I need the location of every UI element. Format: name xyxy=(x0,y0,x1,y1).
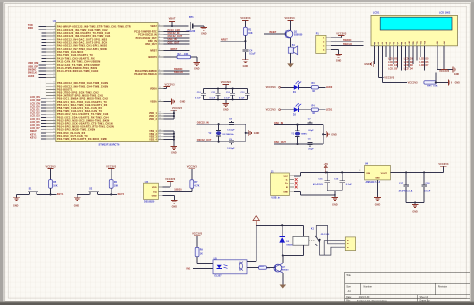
wire (opto emitter) xyxy=(247,267,259,269)
wire / net label BEEP xyxy=(264,31,286,34)
svg-text:AMS1117-3.3: AMS1117-3.3 xyxy=(366,181,381,184)
svg-text:SWCLK: SWCLK xyxy=(343,43,352,46)
wire xyxy=(331,50,339,55)
svg-text:15: 15 xyxy=(53,47,55,49)
wire / net label LCD_D7 xyxy=(30,127,46,130)
svg-text:37: 37 xyxy=(53,119,55,121)
ground GND (VSSA) xyxy=(172,98,186,104)
svg-text:PA14/JTCK-SWCLK: PA14/JTCK-SWCLK xyxy=(134,73,157,76)
svg-text:VDD_1: VDD_1 xyxy=(149,113,157,115)
power port VCC3V3 (VDDA) xyxy=(163,84,175,87)
svg-text:LCD1: LCD1 xyxy=(373,11,380,14)
svg-text:16: 16 xyxy=(53,51,55,53)
svg-text:27: 27 xyxy=(53,88,55,90)
svg-text:12.5pF: 12.5pF xyxy=(227,148,235,150)
wire / net label LCD_RW xyxy=(30,99,46,102)
svg-text:GND: GND xyxy=(455,82,461,84)
power port VCC3V3 (decoupling) xyxy=(221,81,232,88)
net label LCD_D6 xyxy=(419,62,429,64)
connector J2 (relay output) xyxy=(345,237,355,251)
svg-text:18: 18 xyxy=(159,135,161,137)
wire / net label OSC32_OUT xyxy=(163,35,189,38)
svg-text:OSC32_OUT: OSC32_OUT xyxy=(197,139,212,142)
wire xyxy=(327,191,342,198)
svg-text:VSSA: VSSA xyxy=(150,101,157,104)
wire VCC3V3 rail xyxy=(390,171,443,173)
wire LCD_D2 (LCD pin 9) xyxy=(404,46,406,71)
svg-text:GND: GND xyxy=(375,177,380,179)
svg-text:28: 28 xyxy=(53,91,55,93)
svg-text:VCC3V3: VCC3V3 xyxy=(284,17,295,20)
wire / net label LCD_D5 xyxy=(30,121,46,124)
svg-text:C17: C17 xyxy=(399,183,404,185)
svg-text:6: 6 xyxy=(159,43,160,45)
svg-text:GND: GND xyxy=(375,204,381,207)
svg-text:VCC3V3: VCC3V3 xyxy=(439,70,450,73)
svg-text:D-: D- xyxy=(286,180,289,182)
svg-text:29: 29 xyxy=(53,94,55,96)
power port VCC3V3 (contrast) xyxy=(408,81,419,84)
svg-text:VSS_1: VSS_1 xyxy=(149,131,157,133)
wire / net label LCD_D1 xyxy=(30,109,46,112)
svg-text:20: 20 xyxy=(53,63,55,65)
svg-text:30: 30 xyxy=(53,97,55,99)
wire / net label OSC_OUT xyxy=(274,141,323,145)
svg-text:Revision: Revision xyxy=(438,286,448,289)
wire xyxy=(163,181,171,187)
wire LCD_D6 (LCD pin 13) xyxy=(420,46,422,57)
battery BT1 CR1220 xyxy=(187,16,204,33)
svg-text:VCC: VCC xyxy=(283,176,288,178)
svg-text:1K: 1K xyxy=(200,253,203,255)
svg-text:15: 15 xyxy=(159,118,161,120)
wire xyxy=(266,267,275,269)
wire xyxy=(322,125,326,144)
wire / net label LCD_D3 xyxy=(30,115,46,118)
ground GND (decoupling) xyxy=(223,99,230,111)
wire (USB VCC) xyxy=(294,172,301,175)
LCD module LCD1 LCD1602 xyxy=(371,11,458,45)
net label LED0 xyxy=(326,86,333,89)
capacitor C10 0.1uF xyxy=(195,89,206,100)
svg-text:10K: 10K xyxy=(248,33,253,35)
wire xyxy=(318,86,325,88)
power port +5V (relay) xyxy=(253,216,259,226)
svg-text:OSC_IN: OSC_IN xyxy=(274,122,283,125)
wire / net label OSC_OUT xyxy=(163,41,189,44)
svg-text:PC15-OSC32_OUT: PC15-OSC32_OUT xyxy=(136,38,158,40)
svg-text:32.768KHz: 32.768KHz xyxy=(222,134,234,136)
svg-text:41: 41 xyxy=(53,131,55,133)
svg-text:VDD_2: VDD_2 xyxy=(149,116,157,118)
wire xyxy=(191,57,197,63)
svg-text:LCD_D7: LCD_D7 xyxy=(419,65,429,67)
svg-text:PA14-JTCK-SWCLK-TIM8_CH1N: PA14-JTCK-SWCLK-TIM8_CH1N xyxy=(57,70,99,73)
svg-text:14: 14 xyxy=(159,115,161,117)
svg-text:KEY2: KEY2 xyxy=(118,193,125,196)
wire / net label PC13_LED xyxy=(163,29,189,32)
svg-text:13: 13 xyxy=(159,112,161,114)
svg-text:STM32F103RCT6: STM32F103RCT6 xyxy=(99,143,120,146)
svg-text:GND: GND xyxy=(223,109,229,112)
wire xyxy=(435,72,449,83)
svg-text:0.1uF: 0.1uF xyxy=(210,97,216,99)
svg-text:18B20: 18B20 xyxy=(174,189,182,192)
wire xyxy=(76,194,78,197)
power port VCC3V3 (LED row 1) xyxy=(266,86,281,89)
wire / net label RXD xyxy=(28,27,46,30)
wire / net label SWDIO (U1 right) xyxy=(163,68,189,71)
power port VBAT xyxy=(169,17,176,26)
crystal Y2 32.768KHz xyxy=(208,124,234,142)
svg-text:LCD_D3: LCD_D3 xyxy=(404,65,414,67)
wire / net label LCD_D6 xyxy=(30,124,46,127)
wire / net label KEY2 xyxy=(30,136,46,139)
wire LCD_D3 (LCD pin 10) xyxy=(408,46,410,68)
diode D5 1N4007 (flyback) xyxy=(279,225,295,255)
power port VCC3V3 (LCD VDD) xyxy=(384,77,395,80)
resistor R10 1K xyxy=(259,266,271,270)
wire LCD pin1 xyxy=(374,46,376,64)
capacitor C4 0.1uF (NRST) xyxy=(242,49,256,60)
wire xyxy=(163,196,175,201)
svg-text:10K: 10K xyxy=(433,86,438,88)
svg-text:26: 26 xyxy=(53,85,55,87)
svg-text:9: 9 xyxy=(159,69,160,71)
wire LCD pin3 xyxy=(382,46,407,83)
svg-text:VIN: VIN xyxy=(366,173,370,175)
ground GND (key S2) xyxy=(74,198,81,208)
svg-text:36: 36 xyxy=(53,116,55,118)
wire LCD_RS (LCD pin 4) xyxy=(385,46,387,57)
svg-text:43: 43 xyxy=(53,138,55,140)
svg-text:VCC3V3: VCC3V3 xyxy=(106,165,117,168)
svg-text:RXD: RXD xyxy=(28,27,33,30)
power port VCC3V3 (DS18B20) xyxy=(165,178,176,181)
ground GND (P1) xyxy=(335,54,342,62)
svg-text:14: 14 xyxy=(53,44,55,46)
svg-text:NRST: NRST xyxy=(150,51,157,53)
net label LCD_RS xyxy=(388,58,398,60)
LED D2 xyxy=(293,103,301,116)
wires U1 left unlabeled stubs xyxy=(42,33,46,65)
svg-text:GND: GND xyxy=(13,205,19,208)
svg-text:OSC_OUT: OSC_OUT xyxy=(145,44,157,46)
resistor R3 1K xyxy=(311,83,318,93)
wire LCD_D7 (LCD pin 14) xyxy=(424,46,426,71)
svg-text:8: 8 xyxy=(54,25,55,27)
svg-text:GND: GND xyxy=(74,205,80,208)
svg-text:OSC_OUT: OSC_OUT xyxy=(274,141,286,144)
ground GND (BOOT0) xyxy=(194,63,201,71)
svg-text:KEY1: KEY1 xyxy=(57,193,64,196)
capacitor C15 47uF/16V xyxy=(313,172,330,190)
transistor Q1 SS8050 xyxy=(285,30,303,38)
capacitor C7 20pF xyxy=(308,119,315,132)
svg-text:BOOT0: BOOT0 xyxy=(149,57,158,59)
wire xyxy=(17,188,57,195)
svg-text:LCD_D6: LCD_D6 xyxy=(419,62,429,64)
wire LCD_EN (LCD pin 6) xyxy=(393,46,395,64)
wire / net label SWDIO xyxy=(331,39,363,42)
wire / net label OSC32_IN xyxy=(197,121,246,125)
svg-text:IN1: IN1 xyxy=(187,268,191,271)
svg-text:S8050: S8050 xyxy=(282,269,289,271)
svg-text:0.1uF: 0.1uF xyxy=(249,54,256,56)
resistor R1 10K (NRST pullup) xyxy=(244,27,253,35)
resistor R4 1K xyxy=(311,105,318,116)
svg-text:Title: Title xyxy=(346,274,351,277)
svg-text:0.1uF: 0.1uF xyxy=(424,190,431,192)
connector J1 USB xyxy=(271,171,294,200)
wire LCD_RW (LCD pin 5) xyxy=(389,46,391,61)
svg-text:4.7K: 4.7K xyxy=(194,185,199,188)
svg-text:C15: C15 xyxy=(318,179,323,181)
svg-text:LCD_D0: LCD_D0 xyxy=(388,69,398,71)
svg-text:VBAT: VBAT xyxy=(150,25,157,28)
svg-text:SS8050: SS8050 xyxy=(294,35,303,37)
svg-text:18: 18 xyxy=(53,57,55,59)
wire / net label LCD_D2 xyxy=(30,112,46,115)
svg-text:GND: GND xyxy=(332,204,338,207)
ground GND (LCD VSS) xyxy=(364,61,373,67)
wire LCD_D5 (LCD pin 12) xyxy=(416,46,418,61)
wire VBAT xyxy=(163,25,188,27)
svg-text:34: 34 xyxy=(53,110,55,112)
connector P1 (SWD) xyxy=(316,32,331,53)
svg-text:SWCLK: SWCLK xyxy=(174,71,183,74)
net label LCD_D4 xyxy=(404,68,414,71)
svg-text:8: 8 xyxy=(159,56,160,58)
capacitor C12 0.1uF xyxy=(224,89,235,100)
resistor R9 1K (opto) xyxy=(195,247,203,256)
svg-text:3: 3 xyxy=(359,170,360,172)
svg-text:47uF/16V: 47uF/16V xyxy=(313,183,323,186)
svg-text:VSS_2: VSS_2 xyxy=(149,134,157,136)
title block xyxy=(345,272,470,302)
wire (USB GND) xyxy=(294,191,336,196)
wire / net label LCD_D0 xyxy=(30,105,46,108)
power port +5V xyxy=(323,163,328,173)
svg-text:VCC3V3: VCC3V3 xyxy=(266,109,277,112)
capacitor C9 12.5pF xyxy=(227,139,235,150)
svg-text:GND: GND xyxy=(201,32,207,35)
svg-text:7: 7 xyxy=(159,49,160,51)
svg-text:VDD: VDD xyxy=(152,187,157,189)
wire / net label LED0 xyxy=(28,75,46,78)
svg-text:RP1: RP1 xyxy=(427,86,432,88)
wire +5V rail xyxy=(301,171,365,173)
regulator U4 AMS1117-3.3 xyxy=(359,163,390,185)
wire / net label TXD xyxy=(28,24,46,27)
wire / net label 18B20 (DQ) xyxy=(163,189,192,192)
IC U3 DS18B20 xyxy=(144,181,163,204)
power port VCC3V3 (key S1) xyxy=(45,165,56,179)
svg-text:VCC3V3: VCC3V3 xyxy=(336,32,347,35)
svg-text:LED0: LED0 xyxy=(326,86,333,89)
svg-text:Sheet of: Sheet of xyxy=(420,296,429,299)
wire / net label OSC_IN xyxy=(163,38,189,41)
svg-text:1: 1 xyxy=(159,25,160,27)
svg-text:VDD_3: VDD_3 xyxy=(149,119,157,121)
svg-text:32: 32 xyxy=(53,103,55,105)
wire LCD pin15 xyxy=(437,46,453,70)
wire xyxy=(16,194,18,197)
svg-text:GND: GND xyxy=(180,100,186,103)
wire / net label LCD_D4 xyxy=(30,118,46,121)
wire (Q2 emitter) xyxy=(282,273,284,285)
power port VCC3V3 (backlight) xyxy=(439,70,450,73)
resistor R5 10K xyxy=(49,180,58,189)
svg-text:PA13/JTMS-SWDIO: PA13/JTMS-SWDIO xyxy=(135,70,157,73)
svg-text:LCD_RW: LCD_RW xyxy=(388,62,399,64)
svg-text:24: 24 xyxy=(53,76,55,78)
svg-text:0.1uF: 0.1uF xyxy=(346,184,353,186)
net label LCD_D1 xyxy=(404,58,414,60)
buzzer B1 xyxy=(288,45,297,55)
wire (Q2 collector) xyxy=(282,254,284,263)
wire (regulator GND) xyxy=(377,180,379,198)
svg-text:LCD_D4: LCD_D4 xyxy=(404,68,414,71)
crystal Y1 8MHz xyxy=(291,125,308,144)
ground GND (VSS rail) xyxy=(171,147,178,155)
svg-text:BT1: BT1 xyxy=(189,16,194,19)
power port VCC3V3 (buzzer) xyxy=(284,17,295,30)
net label LCD_D2 xyxy=(404,62,414,64)
power port VCC3V3 (NRST pullup) xyxy=(240,17,251,27)
wire relay top rail xyxy=(256,224,303,236)
net label LCD_D0 xyxy=(388,69,398,71)
ground GND (input caps) xyxy=(332,198,339,207)
pins U1 left side xyxy=(46,25,56,139)
wire LCD pin16 xyxy=(441,46,447,70)
net label LED1 xyxy=(326,109,333,112)
svg-text:GND: GND xyxy=(194,68,200,71)
wire LCD_D1 (LCD pin 8) xyxy=(400,46,402,71)
power port VCC3V3 (regulator out) xyxy=(438,163,449,172)
wire xyxy=(281,109,294,111)
ground GND (backlight) xyxy=(453,67,460,76)
relay K1 contacts xyxy=(309,226,346,256)
svg-text:Size: Size xyxy=(346,286,351,289)
svg-text:11: 11 xyxy=(159,87,161,89)
wire VDDA xyxy=(163,86,166,88)
svg-text:47uF/Case-A: 47uF/Case-A xyxy=(399,189,413,192)
svg-text:1K: 1K xyxy=(312,113,315,115)
ground GND (DS18B20) xyxy=(171,200,178,208)
power port VCC3V3 (VDD rail) xyxy=(171,107,183,119)
capacitor C18 0.1uF xyxy=(421,172,431,202)
relay K1 coil xyxy=(293,228,330,255)
svg-text:PC13-TAMPER-RTC: PC13-TAMPER-RTC xyxy=(134,31,157,34)
power port VCC3V3 (DQ pullup) xyxy=(187,166,198,180)
svg-text:8MHz: 8MHz xyxy=(301,134,308,136)
wire / net label LCD_EN xyxy=(30,102,46,105)
capacitor C11 0.1uF xyxy=(210,89,221,100)
svg-text:13: 13 xyxy=(53,41,55,43)
resistor R7 4.7K (DQ pullup) xyxy=(190,180,200,189)
svg-text:NRST: NRST xyxy=(171,48,178,51)
svg-text:GND: GND xyxy=(454,74,460,76)
svg-text:35: 35 xyxy=(53,113,55,115)
svg-text:NRST: NRST xyxy=(221,38,228,41)
wire VDD_1..VDD_3 xyxy=(163,112,175,119)
wire / net label LCD_RS xyxy=(30,96,46,99)
wire xyxy=(298,86,311,88)
svg-text:31: 31 xyxy=(53,100,55,102)
svg-text:5: 5 xyxy=(159,39,160,41)
wire (opto collector) xyxy=(247,225,256,261)
IC U1 STM32F103 microcontroller xyxy=(53,20,158,146)
svg-text:VOUT: VOUT xyxy=(381,173,388,175)
svg-text:VCC3V3: VCC3V3 xyxy=(172,107,183,110)
svg-text:2021-5-30: 2021-5-30 xyxy=(359,297,370,299)
svg-text:OSC_OUT: OSC_OUT xyxy=(168,41,180,44)
svg-text:JD-1912: JD-1912 xyxy=(321,234,330,236)
power port VCC3V3 (P1) xyxy=(336,32,347,35)
svg-text:12.5pF: 12.5pF xyxy=(227,130,235,132)
transistor Q2 S8050 xyxy=(274,263,289,273)
wire xyxy=(77,188,117,195)
svg-text:LCD_D2: LCD_D2 xyxy=(404,62,414,64)
wire NRST node xyxy=(221,35,247,49)
svg-text:LCD 1602: LCD 1602 xyxy=(439,11,451,14)
svg-text:19: 19 xyxy=(53,60,55,62)
wire / net label OSC32_OUT xyxy=(197,139,246,143)
pins U1 right side xyxy=(158,25,163,141)
svg-text:VDDA: VDDA xyxy=(150,88,157,91)
svg-text:GND: GND xyxy=(336,59,342,62)
svg-text:LCD_D1: LCD_D1 xyxy=(404,58,414,60)
svg-text:C16: C16 xyxy=(334,179,339,181)
svg-text:1K: 1K xyxy=(312,91,315,93)
svg-text:42: 42 xyxy=(53,134,55,136)
svg-text:16: 16 xyxy=(159,129,161,131)
wire / net label SWCLK (U1 right) xyxy=(163,71,189,74)
wire / net label OSC32_IN xyxy=(163,32,189,35)
pushbutton S2 xyxy=(89,188,99,194)
svg-text:R10: R10 xyxy=(260,266,265,268)
svg-text:38: 38 xyxy=(53,122,55,124)
svg-text:25: 25 xyxy=(53,82,55,84)
svg-text:LCD_D5: LCD_D5 xyxy=(419,58,429,60)
wire / net label KEY1 xyxy=(30,133,46,136)
wire / net label IN1 xyxy=(187,268,214,271)
svg-text:Date:: Date: xyxy=(346,296,352,299)
svg-text:LED1: LED1 xyxy=(326,109,333,112)
svg-text:LCD_RS: LCD_RS xyxy=(388,58,398,60)
power port VCC3V3 (key S2) xyxy=(106,165,117,179)
resistor R6 10K xyxy=(109,180,118,189)
wire xyxy=(191,188,193,191)
svg-text:VCC3V3: VCC3V3 xyxy=(438,163,449,166)
svg-text:PC14-OSC32_IN: PC14-OSC32_IN xyxy=(138,34,157,37)
ground GND (contrast) xyxy=(448,79,460,85)
wire xyxy=(290,38,292,45)
net label LCD_D5 xyxy=(419,58,429,60)
wire LCD pin2 xyxy=(378,46,383,78)
wire xyxy=(298,109,311,111)
capacitor C17 47uF/Case-A xyxy=(399,172,413,202)
net label KEY1 xyxy=(57,193,64,196)
wire / net label OSC_IN xyxy=(274,122,323,126)
svg-text:17: 17 xyxy=(53,54,55,56)
svg-text:23: 23 xyxy=(53,73,55,75)
wire / net label SWCLK xyxy=(331,43,363,46)
svg-text:VCC3V3: VCC3V3 xyxy=(266,86,277,89)
svg-text:OSC32_IN: OSC32_IN xyxy=(197,121,209,124)
svg-text:KEY2: KEY2 xyxy=(30,136,37,139)
